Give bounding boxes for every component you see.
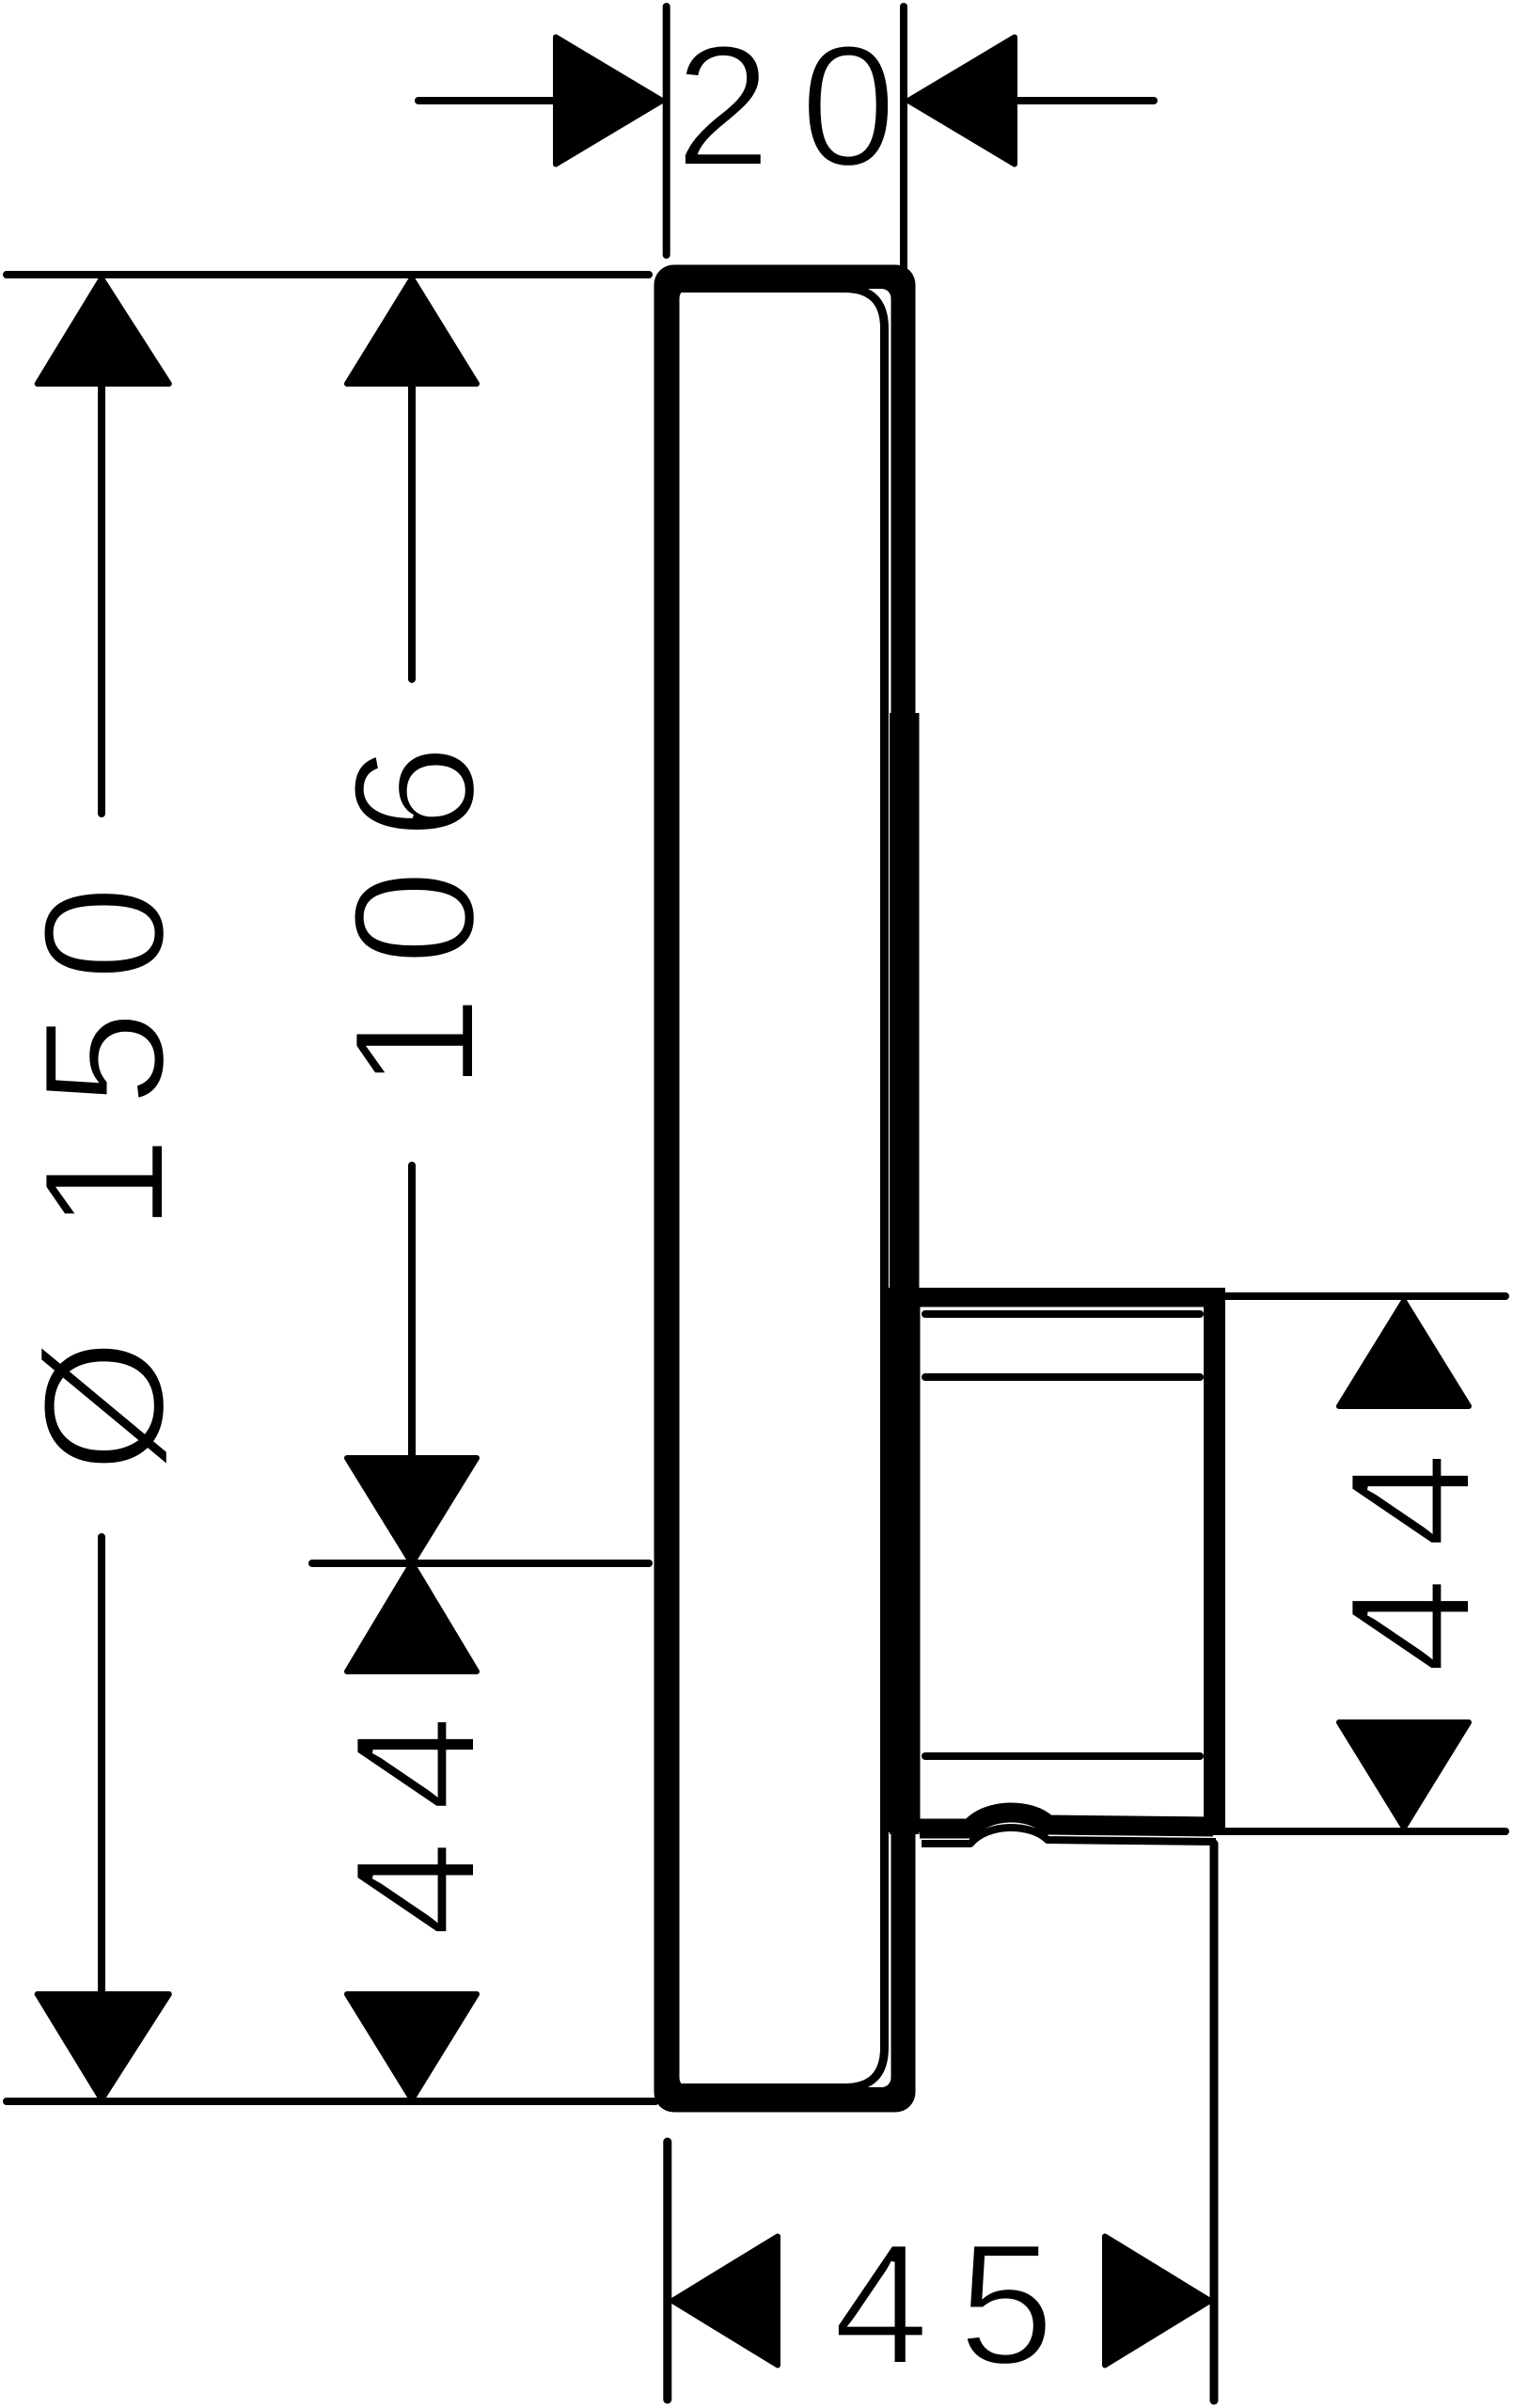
dim D150: bottom extension line [7, 2098, 655, 2105]
dim 44 right: top arrow [1339, 1301, 1469, 1406]
svg-text:106: 106 [317, 715, 511, 1091]
dim 45: right arrow [1105, 2237, 1210, 2366]
valve body inner line 1 [925, 1310, 1200, 1318]
svg-text:44: 44 [1313, 1423, 1506, 1674]
dim 20: left extension line [663, 7, 670, 255]
dim 20: right tail line [1015, 97, 1154, 104]
svg-text:Ø 150: Ø 150 [7, 856, 200, 1473]
dim D150: lower line segment [98, 1537, 105, 1994]
plate / valve body joint fill [886, 1288, 921, 1832]
dim D150: bottom arrow [38, 1994, 169, 2099]
plate inner contour line [671, 289, 885, 2088]
dim 44 right: top extension line [1213, 1292, 1505, 1300]
svg-text:45: 45 [833, 2207, 1084, 2400]
dim 45: right extension line [1210, 1844, 1219, 2400]
dim 45: left arrow [672, 2237, 778, 2366]
dim 44 right: bottom extension line [1213, 1828, 1505, 1835]
valve body inner line 2 [925, 1373, 1200, 1381]
dim D150: top extension line [7, 271, 649, 278]
dim 106: lower line segment [408, 1165, 416, 1458]
dim 106: top arrow [347, 278, 477, 384]
valve body bottom thin contour with pipe bump [922, 1828, 1216, 1844]
dim 44 left: top arrow (bow-tie lower) [347, 1563, 477, 1671]
dim 45: left extension line [663, 2142, 671, 2400]
svg-text:20: 20 [675, 8, 926, 202]
node: intermediate extension line at body axis [312, 1560, 649, 1567]
dim D150: top arrow [38, 278, 169, 384]
svg-text:44: 44 [318, 1687, 512, 1938]
valve body inner line 3 [925, 1752, 1200, 1760]
plate outline (escutcheon side view, outer contour) [654, 265, 916, 2113]
dim 44 left: bottom arrow [347, 1994, 477, 2099]
dim 20: right extension line [900, 7, 907, 277]
dim 20: left tail line [418, 97, 621, 104]
valve body bottom edge with pipe bump [920, 1813, 1213, 1829]
dim 20: left arrow [556, 38, 662, 165]
dim 106: upper line segment [408, 384, 416, 679]
dim D150: upper line segment [98, 384, 105, 814]
valve body right edge [1204, 1288, 1225, 1834]
dim 106: bottom arrow (bow-tie upper) [347, 1458, 477, 1563]
plate select-button profile on front face [890, 713, 920, 1834]
valve body top edge [916, 1288, 1226, 1307]
dim 44 right: bottom arrow [1339, 1722, 1469, 1828]
dim 20: right arrow [908, 38, 1015, 165]
